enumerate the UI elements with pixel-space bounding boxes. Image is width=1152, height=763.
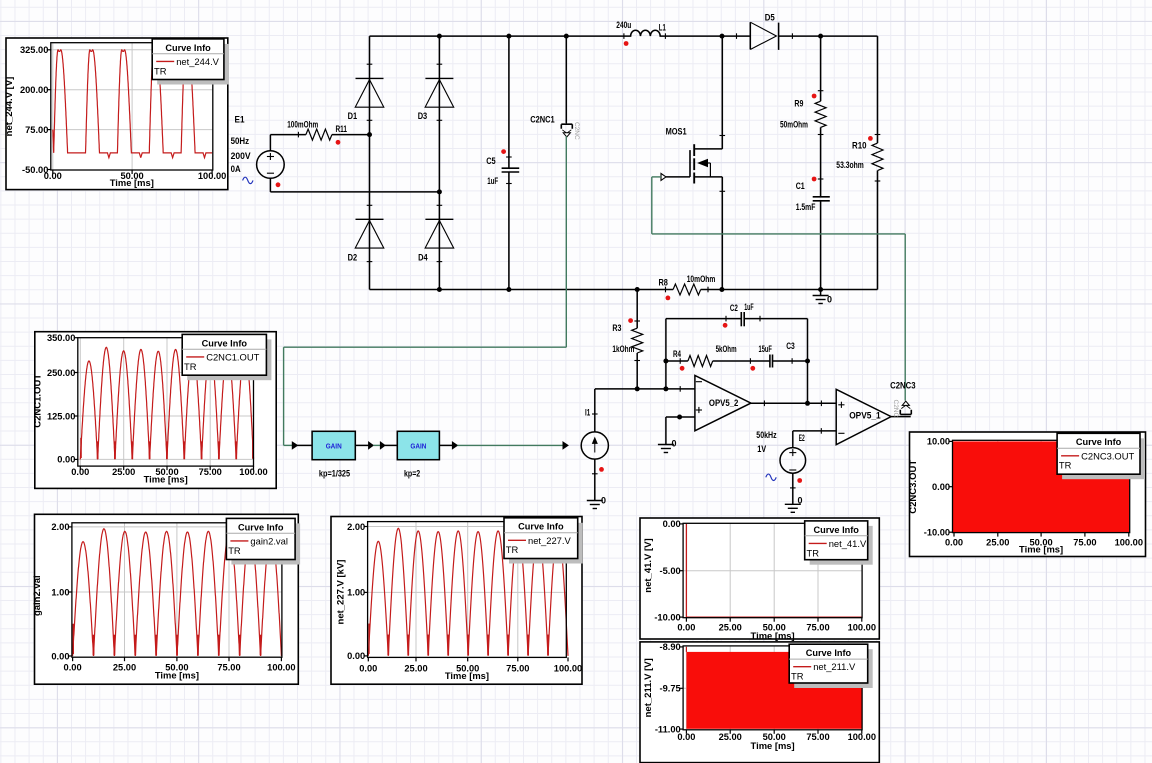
svg-text:0: 0 [827, 295, 832, 305]
svg-text:E2: E2 [799, 433, 805, 443]
svg-text:C2NC3.OUT: C2NC3.OUT [1081, 450, 1134, 461]
svg-text:75.00: 75.00 [506, 664, 529, 674]
svg-text:OPV5_1: OPV5_1 [849, 411, 881, 421]
svg-text:-8.90: -8.90 [659, 642, 680, 652]
svg-text:R4: R4 [673, 349, 681, 359]
svg-text:240u: 240u [616, 20, 631, 30]
svg-text:Time [ms]: Time [ms] [1019, 544, 1063, 555]
svg-text:15uF: 15uF [759, 344, 773, 354]
svg-text:25.00: 25.00 [404, 664, 427, 674]
svg-text:D2: D2 [348, 253, 358, 263]
svg-text:100mOhm: 100mOhm [287, 120, 318, 130]
svg-text:C2NC3: C2NC3 [890, 381, 916, 391]
svg-text:Time [ms]: Time [ms] [110, 177, 154, 188]
svg-text:100.00: 100.00 [848, 623, 876, 633]
svg-text:Curve Info: Curve Info [202, 338, 248, 348]
svg-text:250.00: 250.00 [47, 368, 75, 378]
svg-text:0.00: 0.00 [932, 482, 950, 492]
svg-text:1.00: 1.00 [347, 588, 365, 598]
svg-text:C2NC: C2NC [892, 400, 899, 418]
svg-text:Time [ms]: Time [ms] [155, 670, 199, 681]
svg-text:75.00: 75.00 [1073, 538, 1096, 548]
svg-text:2.00: 2.00 [51, 522, 69, 532]
svg-text:R10: R10 [852, 140, 867, 150]
svg-text:TR: TR [228, 545, 241, 556]
svg-text:75.00: 75.00 [217, 662, 240, 672]
svg-text:R8: R8 [659, 277, 668, 287]
svg-text:TR: TR [184, 361, 197, 372]
svg-text:Time [ms]: Time [ms] [751, 740, 795, 751]
svg-text:kp=1/325: kp=1/325 [319, 469, 350, 479]
svg-text:10.00: 10.00 [927, 437, 950, 447]
svg-text:0: 0 [798, 496, 803, 506]
svg-text:1.5mF: 1.5mF [796, 202, 816, 212]
svg-text:D4: D4 [418, 253, 428, 263]
svg-text:C2NC1.OUT: C2NC1.OUT [206, 351, 259, 362]
svg-text:TR: TR [154, 65, 167, 76]
svg-text:C2NC3.OUT: C2NC3.OUT [908, 460, 919, 514]
svg-text:100.00: 100.00 [554, 664, 582, 674]
svg-text:0.00: 0.00 [51, 651, 69, 661]
svg-text:-5.00: -5.00 [659, 566, 680, 576]
svg-text:200V: 200V [231, 151, 251, 161]
svg-text:C2NC1: C2NC1 [530, 114, 555, 124]
svg-text:125.00: 125.00 [47, 411, 75, 421]
svg-text:25.00: 25.00 [719, 623, 742, 633]
svg-text:25.00: 25.00 [113, 662, 136, 672]
svg-text:GAIN: GAIN [326, 441, 342, 450]
svg-text:kp=2: kp=2 [404, 469, 420, 479]
svg-text:MOS1: MOS1 [666, 126, 687, 136]
svg-text:D1: D1 [348, 111, 358, 121]
svg-text:net_227.V: net_227.V [528, 535, 571, 546]
svg-text:25.00: 25.00 [719, 732, 742, 742]
svg-text:net_211.V: net_211.V [813, 661, 856, 672]
svg-text:50Hz: 50Hz [231, 136, 250, 146]
svg-text:-10.00: -10.00 [924, 528, 950, 538]
svg-text:Time [ms]: Time [ms] [445, 670, 489, 681]
svg-text:0: 0 [672, 439, 677, 449]
svg-text:TR: TR [807, 547, 820, 558]
svg-text:D5: D5 [765, 12, 775, 22]
svg-text:-10.00: -10.00 [654, 612, 680, 622]
svg-text:0.00: 0.00 [359, 664, 377, 674]
svg-text:C5: C5 [486, 156, 496, 166]
svg-text:0.00: 0.00 [347, 651, 365, 661]
svg-text:C1: C1 [796, 181, 805, 191]
svg-text:53.3ohm: 53.3ohm [836, 160, 864, 170]
svg-text:gain2.val: gain2.val [250, 535, 288, 546]
svg-text:R9: R9 [794, 99, 803, 109]
svg-text:25.00: 25.00 [112, 467, 135, 477]
svg-text:100.00: 100.00 [267, 662, 295, 672]
svg-text:net_41.V: net_41.V [829, 538, 867, 549]
svg-text:1.00: 1.00 [51, 587, 69, 597]
svg-text:Time [ms]: Time [ms] [144, 473, 188, 484]
svg-text:25.00: 25.00 [986, 538, 1009, 548]
svg-text:1uF: 1uF [744, 302, 754, 312]
svg-text:C2NC: C2NC [573, 122, 580, 140]
svg-text:325.00: 325.00 [20, 45, 48, 55]
svg-text:C2NC1.OUT: C2NC1.OUT [33, 374, 44, 428]
svg-text:200.00: 200.00 [20, 85, 48, 95]
svg-text:0: 0 [601, 496, 606, 506]
svg-text:0.00: 0.00 [71, 467, 89, 477]
svg-text:I1: I1 [585, 408, 590, 418]
svg-text:2.00: 2.00 [347, 522, 365, 532]
svg-text:75.00: 75.00 [806, 732, 829, 742]
svg-text:1uF: 1uF [487, 176, 498, 186]
svg-text:0.00: 0.00 [945, 538, 963, 548]
svg-text:net_244.V [V]: net_244.V [V] [4, 77, 15, 137]
svg-text:5kOhm: 5kOhm [716, 344, 737, 354]
svg-text:net_211.V [V]: net_211.V [V] [643, 658, 654, 717]
svg-text:C2: C2 [730, 303, 738, 313]
svg-text:75.00: 75.00 [199, 467, 222, 477]
svg-text:Curve Info: Curve Info [238, 522, 284, 532]
svg-text:L1: L1 [659, 22, 666, 32]
svg-text:Curve Info: Curve Info [806, 648, 852, 658]
svg-text:R11: R11 [336, 124, 348, 134]
svg-text:Curve Info: Curve Info [165, 43, 211, 53]
svg-text:100.00: 100.00 [848, 732, 876, 742]
svg-text:100.00: 100.00 [1115, 538, 1143, 548]
svg-text:50mOhm: 50mOhm [780, 119, 808, 129]
svg-text:0.00: 0.00 [677, 732, 695, 742]
svg-text:-9.75: -9.75 [659, 684, 680, 694]
svg-text:75.00: 75.00 [25, 125, 48, 135]
svg-text:Curve Info: Curve Info [518, 522, 564, 532]
svg-text:R3: R3 [612, 323, 621, 333]
svg-text:0.00: 0.00 [677, 623, 695, 633]
svg-text:GAIN: GAIN [410, 441, 426, 450]
svg-text:C3: C3 [786, 341, 795, 351]
svg-text:TR: TR [791, 671, 804, 682]
svg-text:1V: 1V [757, 444, 766, 454]
svg-text:net_244.V: net_244.V [176, 56, 219, 67]
svg-text:10mOhm: 10mOhm [687, 274, 716, 284]
svg-text:1kOhm: 1kOhm [612, 344, 634, 354]
svg-text:350.00: 350.00 [47, 333, 75, 343]
svg-text:TR: TR [506, 544, 519, 555]
svg-text:100.00: 100.00 [198, 171, 226, 181]
svg-text:net_227.V [kV]: net_227.V [kV] [335, 560, 346, 625]
svg-text:gain2.val: gain2.val [32, 575, 43, 616]
svg-text:0.00: 0.00 [44, 171, 62, 181]
svg-text:Time [ms]: Time [ms] [751, 630, 795, 641]
svg-text:0.00: 0.00 [57, 455, 75, 465]
svg-text:OPV5_2: OPV5_2 [709, 398, 739, 408]
svg-text:TR: TR [1059, 460, 1072, 471]
svg-text:0.00: 0.00 [663, 519, 681, 529]
svg-text:Curve Info: Curve Info [813, 525, 859, 535]
svg-text:0.00: 0.00 [64, 662, 82, 672]
svg-text:net_41.V [V]: net_41.V [V] [643, 538, 654, 592]
svg-text:100.00: 100.00 [239, 467, 267, 477]
svg-text:50kHz: 50kHz [756, 430, 777, 440]
svg-text:Curve Info: Curve Info [1076, 437, 1122, 447]
svg-text:0A: 0A [231, 164, 241, 174]
svg-text:75.00: 75.00 [806, 623, 829, 633]
svg-text:D3: D3 [418, 111, 428, 121]
svg-text:E1: E1 [235, 114, 245, 124]
